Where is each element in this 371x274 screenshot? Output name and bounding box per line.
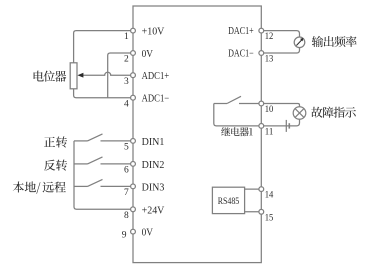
label DIN2 pin 6: [142, 160, 165, 171]
label DIN1 pin 5: [142, 137, 165, 148]
svg-text:5: 5: [124, 143, 129, 153]
terminal pin 10: [259, 101, 264, 106]
switch S2 (反转) to DIN2: [74, 157, 133, 164]
wire pin1 +10V to potentiometer top: [74, 31, 133, 63]
terminal pin 15: [259, 209, 264, 214]
wire meter to pin13 DAC1-: [261, 48, 299, 53]
wire pin10 to fault lamp: [261, 104, 299, 107]
main terminal box: [133, 6, 261, 263]
wire relay common to pin11: [214, 104, 261, 126]
wire RS485 to pin15: [245, 211, 262, 213]
svg-text:ADC1+: ADC1+: [142, 71, 170, 82]
label 故障指示 (fault indication): [311, 107, 356, 118]
potentiometer body: [70, 63, 77, 89]
pin number 13: [265, 55, 274, 65]
terminal pin 12: [259, 28, 264, 33]
label ADC1− pin 4: [142, 94, 170, 105]
wire potentiometer wiper to pin3 ADC1+ (hop over 0V wire): [83, 72, 134, 75]
svg-text:1: 1: [124, 32, 129, 42]
label DIN3 pin 7: [142, 182, 165, 193]
terminal pin 8: [131, 207, 136, 212]
svg-text:DIN1: DIN1: [142, 137, 165, 148]
svg-text:15: 15: [265, 213, 274, 223]
pin number 12: [265, 32, 274, 42]
svg-text:RS485: RS485: [218, 197, 240, 207]
battery plates: [286, 120, 289, 132]
terminal pin 5: [131, 139, 136, 144]
wire RS485 to pin14: [245, 188, 262, 190]
pin number 7: [124, 188, 129, 198]
svg-text:13: 13: [265, 55, 274, 65]
label ADC1+ pin 3: [142, 71, 170, 82]
label 反转 (reverse run): [44, 160, 67, 171]
label DAC1+ pin 12: [228, 26, 254, 37]
label +24V pin 8: [142, 205, 165, 216]
label DAC1− pin 13: [228, 49, 254, 60]
terminal pin 13: [259, 51, 264, 56]
label 继电器1 (relay 1): [221, 127, 253, 136]
pin number 14: [265, 191, 274, 201]
terminal pin 2: [131, 51, 136, 56]
svg-text:+10V: +10V: [142, 27, 165, 38]
switch S1 (正转) to DIN1: [74, 134, 133, 141]
svg-text:9: 9: [122, 230, 127, 240]
svg-text:7: 7: [124, 188, 129, 198]
label 正转 (forward run): [44, 136, 67, 147]
pin number 5: [124, 143, 129, 153]
svg-text:DIN3: DIN3: [142, 182, 165, 193]
label 电位器 (potentiometer): [34, 71, 67, 82]
svg-text:14: 14: [265, 191, 274, 201]
pin number 2: [124, 55, 129, 65]
wire fault lamp to battery to pin11: [261, 119, 299, 126]
svg-text:3: 3: [124, 77, 129, 87]
svg-text:0V: 0V: [142, 49, 154, 60]
terminal pin 1: [131, 28, 136, 33]
label 输出频率 (output frequency): [312, 36, 357, 47]
svg-text:2: 2: [124, 55, 129, 65]
svg-text:0V: 0V: [142, 228, 154, 239]
fault indicator lamp: [293, 107, 306, 120]
label 0V pin 9: [142, 228, 154, 239]
terminal pin 9: [131, 229, 136, 234]
terminal pin 14: [259, 187, 264, 192]
svg-text:DIN2: DIN2: [142, 160, 165, 171]
svg-text:DAC1+: DAC1+: [228, 26, 254, 37]
frequency meter M1: [294, 37, 305, 48]
terminal pin 3: [131, 73, 136, 78]
wire +24V bus to pin8: [74, 141, 133, 209]
svg-text:8: 8: [124, 211, 129, 221]
terminal pin 6: [131, 162, 136, 167]
wire pin12 DAC1+ to meter: [261, 31, 299, 37]
svg-text:6: 6: [124, 166, 129, 176]
pin number 9: [122, 230, 127, 240]
pin number 1: [124, 32, 129, 42]
pin number 3: [124, 77, 129, 87]
svg-text:+24V: +24V: [142, 205, 165, 216]
relay contact K1: [214, 96, 261, 103]
svg-text:4: 4: [124, 99, 129, 109]
RS485 module U2: [212, 187, 244, 213]
pin number 15: [265, 213, 274, 223]
wire potentiometer bottom to pin4 ADC1-: [74, 89, 133, 98]
svg-text:ADC1−: ADC1−: [142, 94, 170, 105]
svg-text:11: 11: [265, 128, 274, 138]
switch S3 (本地/远程) to DIN3: [74, 179, 133, 186]
pin number 6: [124, 166, 129, 176]
wire pin2 0V down to ADC1- wire: [108, 53, 133, 98]
svg-text:DAC1−: DAC1−: [228, 49, 254, 60]
terminal pin 7: [131, 184, 136, 189]
pin number 8: [124, 211, 129, 221]
pin number 11: [265, 128, 274, 138]
pin number 4: [124, 99, 129, 109]
pin number 10: [265, 105, 274, 115]
label +10V pin 1: [142, 27, 165, 38]
label 本地/远程 (local/remote): [13, 181, 66, 193]
label 0V pin 2: [142, 49, 154, 60]
svg-text:10: 10: [265, 105, 274, 115]
terminal pin 4: [131, 95, 136, 100]
svg-text:12: 12: [265, 32, 274, 42]
terminal pin 11: [259, 124, 264, 129]
potentiometer wiper arrow: [77, 73, 83, 78]
